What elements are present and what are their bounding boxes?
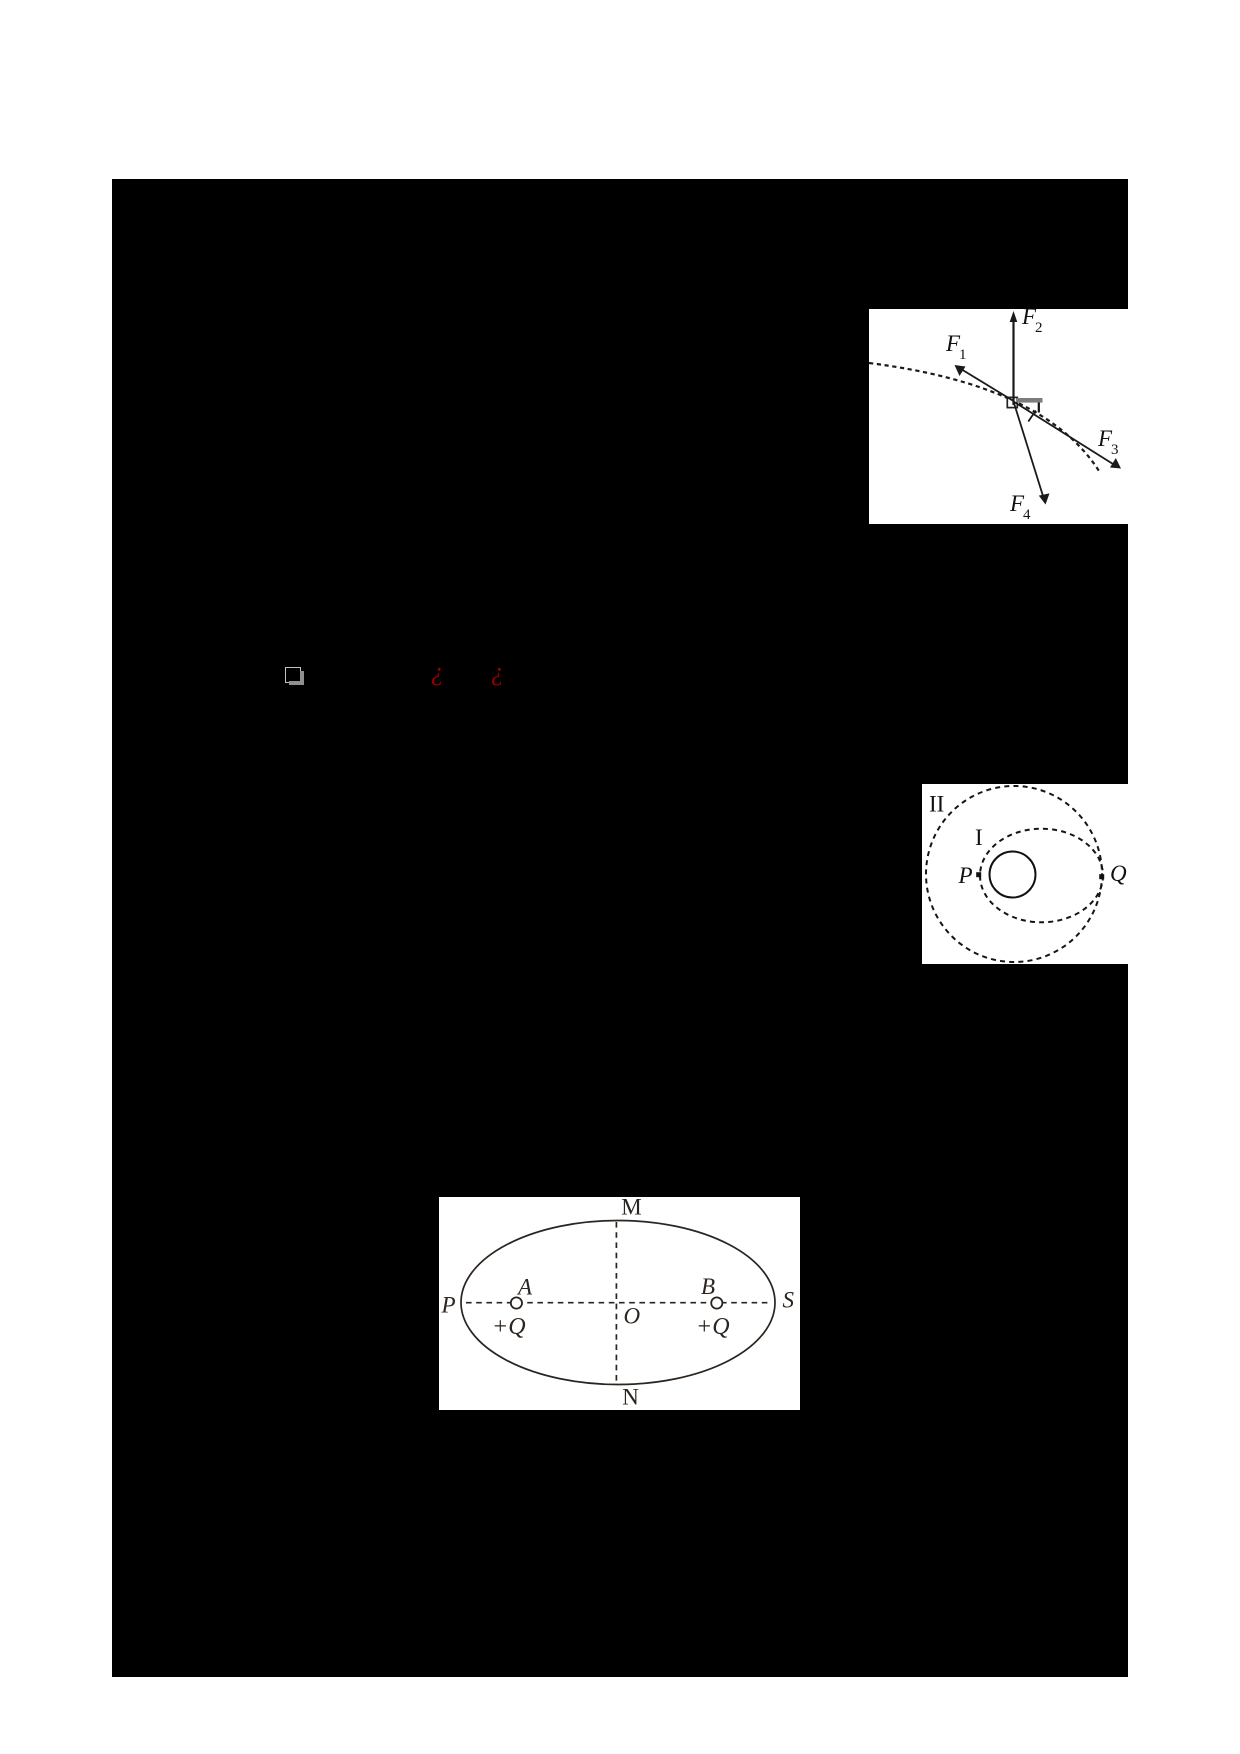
- red placeholder glyph 2: [491, 657, 504, 687]
- svg-text:P: P: [441, 1293, 456, 1318]
- point B circle: [711, 1297, 722, 1308]
- svg-text:Q: Q: [1110, 861, 1127, 886]
- point P: [976, 872, 981, 877]
- svg-text:3: 3: [1111, 442, 1119, 458]
- figure 3: ellipse with two charges: [439, 1197, 800, 1410]
- svg-text:N: N: [622, 1385, 639, 1410]
- svg-text:II: II: [929, 792, 944, 817]
- svg-text:1: 1: [959, 347, 967, 363]
- black content block (redacted text area): [112, 179, 1128, 1677]
- point Q: [1099, 874, 1104, 879]
- svg-text:+Q: +Q: [696, 1314, 730, 1340]
- orbit II dashed circle: [926, 786, 1102, 962]
- F1 arrow: [961, 369, 1014, 401]
- dashed trajectory: [869, 363, 1099, 471]
- figure 2: planet with two orbits: [922, 784, 1150, 964]
- checkbox bullet glyph (shadowed square): [285, 667, 301, 683]
- svg-text:2: 2: [1035, 320, 1043, 336]
- F3 arrow: [1014, 402, 1114, 465]
- F2 arrow: [1012, 320, 1014, 405]
- angle marks: [1038, 403, 1040, 413]
- planet solid circle: [990, 852, 1036, 898]
- vertical dashed axis MN: [615, 1222, 617, 1384]
- svg-text:P: P: [958, 863, 973, 888]
- figure 1: trajectory with four force vectors: [869, 309, 1154, 524]
- ellipse: [461, 1221, 775, 1385]
- point A circle: [511, 1297, 522, 1308]
- svg-text:S: S: [783, 1288, 795, 1313]
- gray bar: [1017, 398, 1043, 403]
- F4 arrow: [1014, 402, 1044, 497]
- svg-text:B: B: [701, 1274, 715, 1299]
- object marker square: [1007, 397, 1017, 407]
- orbit I dashed ellipse: [980, 829, 1103, 923]
- red placeholder glyph 1: [431, 657, 444, 687]
- svg-text:+Q: +Q: [492, 1314, 526, 1340]
- svg-text:M: M: [621, 1197, 641, 1220]
- svg-text:O: O: [624, 1304, 641, 1329]
- svg-text:I: I: [975, 825, 983, 850]
- svg-text:4: 4: [1023, 507, 1031, 523]
- svg-text:A: A: [516, 1275, 533, 1300]
- horizontal dashed axis PS: [466, 1302, 770, 1304]
